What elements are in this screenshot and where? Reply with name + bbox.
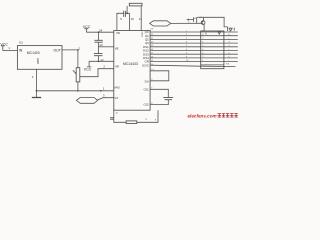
node pot bottom xyxy=(77,90,79,92)
svg-text:d: d xyxy=(229,42,230,44)
svg-text:10: 10 xyxy=(131,17,135,21)
wire clock right xyxy=(137,110,158,122)
svg-text:c: c xyxy=(229,38,230,40)
wire OUT to pot xyxy=(62,50,78,68)
node VCC input terminal xyxy=(0,42,8,50)
svg-text:VCC: VCC xyxy=(83,25,91,29)
svg-text:13: 13 xyxy=(99,43,103,47)
wire bus EOC through R xyxy=(150,65,235,66)
wire base xyxy=(171,22,202,24)
wire wiper to pin 2 VR xyxy=(80,69,114,77)
svg-text:(A/D): (A/D) xyxy=(140,32,143,37)
svg-text:VCC: VCC xyxy=(84,67,92,71)
wire VX to pin 3 xyxy=(97,98,113,100)
svg-text:h: h xyxy=(229,56,230,58)
regulator U1 MC1403 xyxy=(17,41,62,70)
IC U2 MC14433 ADC xyxy=(114,30,150,110)
wire GND pin down xyxy=(35,69,37,97)
capacitor C3 xyxy=(94,47,103,62)
wire bus DS1 xyxy=(150,46,238,48)
svg-text:DU: DU xyxy=(145,80,149,84)
resistor R1 integrator xyxy=(126,3,142,30)
annotation arrow xyxy=(186,17,197,23)
svg-text:VAG: VAG xyxy=(114,86,121,90)
node rail bottom xyxy=(98,61,100,63)
pin digits inside box xyxy=(202,30,204,62)
wire to pin 12 xyxy=(89,60,114,62)
segment labels xyxy=(229,30,231,62)
capacitor clock stub xyxy=(110,118,114,120)
wire bus Q2 xyxy=(150,38,238,40)
capacitor C4 offset xyxy=(150,89,173,104)
pin numbers right edge xyxy=(150,29,154,66)
wire collector down xyxy=(203,24,205,31)
pin numbers left of display box xyxy=(186,30,189,62)
svg-text:MC1403: MC1403 xyxy=(27,51,40,55)
svg-text:C02: C02 xyxy=(143,103,149,107)
ground xyxy=(32,97,41,99)
wire bus Q0 xyxy=(150,31,238,33)
wire VCC to VDD pin 24 xyxy=(87,31,114,33)
node rail top xyxy=(98,31,100,33)
wire bus DS2 xyxy=(150,50,238,52)
transistor Q1 xyxy=(201,21,205,25)
wire bus DS4 xyxy=(150,57,238,59)
node VAG junction xyxy=(100,90,102,92)
resistor R2 clock xyxy=(126,121,137,124)
svg-text:11: 11 xyxy=(139,17,142,21)
wire bus OR xyxy=(150,61,238,63)
wire VCC to IN xyxy=(3,50,18,52)
wire annotation top xyxy=(197,16,204,18)
svg-text:12: 12 xyxy=(100,58,104,62)
node junction OUT xyxy=(77,49,79,51)
capacitor C2 xyxy=(95,32,103,47)
watermark xyxy=(188,113,238,118)
svg-text:VR: VR xyxy=(115,65,119,69)
svg-text:D1: D1 xyxy=(19,41,23,45)
svg-text:24: 24 xyxy=(99,29,103,33)
svg-text:EOC: EOC xyxy=(143,63,149,67)
wire bus DS3 xyxy=(150,53,238,55)
wire VAG line xyxy=(36,90,113,92)
wire bus Q1 xyxy=(150,35,238,37)
svg-text:g: g xyxy=(229,53,230,55)
node digit mark xyxy=(229,28,234,31)
potentiometer RP1 xyxy=(73,68,80,82)
node VCC tap down xyxy=(84,61,92,71)
node VCC tap top xyxy=(83,25,91,32)
svg-text:VX: VX xyxy=(114,96,118,100)
svg-text:IN: IN xyxy=(19,49,23,53)
svg-text:VE: VE xyxy=(115,46,119,50)
wire bus Q3 xyxy=(150,42,238,44)
wire clock left xyxy=(114,110,126,122)
svg-text:MC14433: MC14433 xyxy=(123,62,138,66)
svg-text:C01: C01 xyxy=(143,88,149,92)
node display common pill xyxy=(150,21,171,26)
svg-text:OUT: OUT xyxy=(53,49,61,53)
node VX input probe xyxy=(76,98,97,104)
wire emitter loop xyxy=(204,17,228,31)
svg-text:GND: GND xyxy=(36,58,40,64)
display module box xyxy=(201,31,224,69)
wire EOC-DU loop xyxy=(150,71,169,81)
wire to pin 13 xyxy=(98,46,113,48)
svg-text:VD: VD xyxy=(116,31,120,35)
wire pot bottom to VAG line xyxy=(77,82,79,91)
svg-text:elecfans.com: elecfans.com xyxy=(188,114,217,119)
wire collector to box xyxy=(196,17,198,23)
capacitor C1 integrator top xyxy=(117,11,129,31)
